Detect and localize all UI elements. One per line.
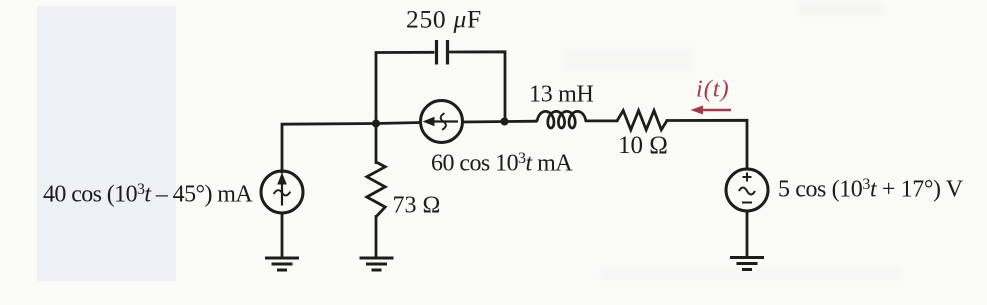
wire: inductor to resistor (586, 120, 617, 123)
wire: capacitor right branch (451, 52, 506, 122)
svg-text:i(t): i(t) (696, 77, 730, 103)
wire: voltage source to ground (746, 211, 749, 257)
voltage source V1 sine (739, 188, 755, 195)
svg-text:5 cos (103t + 17°) V: 5 cos (103t + 17°) V (778, 176, 964, 203)
resistor R 10ohm (617, 111, 667, 130)
wire: left source riser (282, 124, 376, 173)
voltage source V1 circle (726, 169, 768, 211)
capacitor C 250uF plates (437, 40, 448, 65)
wire: 73ohm branch bottom (375, 217, 378, 258)
resistor R 73ohm (367, 162, 385, 217)
ground under I1 (265, 258, 299, 270)
voltage source V1 plus (743, 173, 752, 182)
current source I1 40cos circle (261, 171, 303, 213)
svg-text:10 Ω: 10 Ω (618, 132, 668, 159)
node A junction dot (372, 120, 380, 128)
current source I1 arrow (274, 173, 291, 206)
current source I2 60cos circle (421, 101, 463, 143)
svg-text:250 μF: 250 μF (406, 5, 482, 34)
voltage source V1 minus (742, 202, 752, 204)
svg-text:40 cos (103t – 45°) mA: 40 cos (103t – 45°) mA (43, 181, 253, 208)
inductor L 13mH (536, 111, 587, 128)
background panel (light blue scan area) (37, 6, 176, 281)
ground under R73 (360, 258, 394, 270)
wire: mid current source to node B (463, 120, 537, 124)
wire: node A to mid current source (376, 123, 421, 124)
current arrow i(t) red (691, 106, 732, 115)
wire: resistor to right corner and riser (667, 120, 747, 169)
wire: 73ohm branch top (375, 124, 378, 163)
ground under V1 (730, 258, 764, 270)
current source I2 arrow (423, 113, 459, 130)
node B junction dot (501, 118, 509, 126)
svg-text:13 mH: 13 mH (529, 82, 594, 108)
wire: capacitor left branch (376, 52, 433, 123)
svg-text:60 cos 103t mA: 60 cos 103t mA (431, 150, 573, 177)
svg-text:73 Ω: 73 Ω (393, 193, 441, 219)
wire: left source bottom (281, 213, 284, 257)
